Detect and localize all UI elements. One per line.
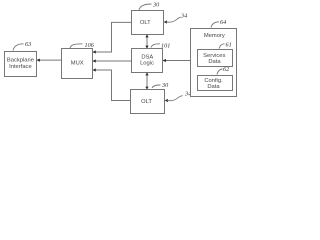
block Memory: [191, 29, 237, 97]
block OLT bottom: [131, 90, 165, 114]
label 101: [151, 43, 170, 50]
svg-text:101: 101: [161, 43, 170, 50]
arrowhead into MUX middle: [92, 59, 95, 62]
arrowhead into Backplane: [37, 59, 40, 62]
arrowhead into MUX bottom: [92, 68, 95, 71]
block OLT top: [132, 11, 164, 35]
svg-text:34: 34: [180, 13, 187, 20]
wire MUX to DSA: [93, 60, 132, 62]
svg-text:63: 63: [25, 41, 31, 48]
label 34 bottom with leader arrow into OLT right edge: [165, 91, 192, 102]
svg-text:Backplane: Backplane: [7, 58, 34, 64]
block Services Data: [198, 50, 233, 67]
label 30 bottom: [152, 82, 169, 89]
label 64: [211, 19, 226, 27]
label 62: [217, 66, 229, 75]
arrowhead into MUX top: [92, 50, 95, 53]
block Backplane Interface: [5, 52, 37, 77]
arrowhead into OLT top: [145, 34, 148, 37]
svg-text:30: 30: [161, 82, 169, 89]
svg-text:MUX: MUX: [71, 61, 84, 67]
label 106: [70, 42, 95, 49]
svg-text:30: 30: [152, 2, 160, 9]
block Config Data: [198, 76, 233, 91]
arrowhead into DSA top: [145, 46, 148, 49]
wire MUX to top OLT: [93, 22, 132, 52]
label 63: [13, 41, 31, 51]
label 34 top with leader arrow into OLT right edge: [164, 13, 188, 24]
svg-text:106: 106: [85, 42, 95, 49]
arrowhead into DSA bottom: [145, 72, 148, 75]
svg-text:OLT: OLT: [140, 20, 151, 26]
wire OLT top to DSA (bidirectional): [146, 35, 148, 49]
block DSA Logic: [132, 49, 163, 73]
wire Backplane-MUX: [37, 59, 62, 61]
svg-text:62: 62: [223, 66, 229, 73]
svg-text:64: 64: [220, 19, 226, 26]
wire DSA to Memory: [163, 60, 191, 62]
svg-text:OLT: OLT: [141, 99, 152, 105]
svg-text:61: 61: [226, 41, 232, 48]
arrowhead into DSA right edge: [163, 59, 166, 62]
label 30 top: [139, 2, 160, 11]
wire MUX to bottom OLT: [93, 70, 131, 101]
svg-text:Data: Data: [207, 84, 220, 90]
svg-text:Logic: Logic: [140, 60, 154, 66]
svg-text:Memory: Memory: [204, 33, 225, 39]
svg-text:Data: Data: [208, 59, 221, 65]
label 61: [219, 41, 232, 48]
block MUX: [62, 49, 93, 79]
arrowhead into OLT bottom top edge: [145, 87, 148, 90]
wire DSA to OLT bottom (bidirectional): [146, 73, 148, 90]
svg-text:Interface: Interface: [9, 64, 32, 70]
